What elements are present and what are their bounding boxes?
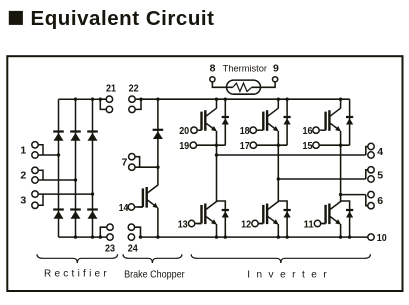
svg-text:22: 22: [129, 83, 139, 95]
svg-text:21: 21: [106, 83, 116, 95]
terminal 19 aux emitter wire: [197, 144, 226, 146]
terminal 2 circles: [32, 167, 38, 173]
junction brake emitter on N rail: [156, 235, 159, 238]
junction terminal 7: [156, 166, 159, 169]
svg-text:18: 18: [240, 125, 250, 137]
freewheel diode FD2 wire: [286, 99, 288, 145]
svg-text:Equivalent Circuit: Equivalent Circuit: [31, 7, 215, 30]
junction aux emitter leg3: [339, 144, 342, 147]
thermistor body: [227, 80, 261, 94]
svg-text:9: 9: [273, 63, 279, 75]
rectifier leg 2 wire: [75, 99, 77, 237]
freewheel diode FD5: [284, 210, 291, 218]
phase V node junction: [277, 177, 280, 180]
terminal 16 circle: [313, 127, 319, 133]
svg-text:20: 20: [179, 125, 189, 137]
terminal 11 circle: [314, 220, 320, 226]
terminal 17 aux emitter wire: [257, 144, 288, 146]
rectifier leg 3 wire: [92, 99, 94, 237]
terminal 13 circle: [188, 220, 194, 226]
terminal 14 circle: [128, 204, 134, 210]
brace Brake Chopper: [123, 254, 182, 263]
terminal 19 circle: [190, 142, 196, 148]
freewheel diode FD3 wire: [349, 99, 351, 145]
terminal 12 gate wire: [258, 223, 263, 225]
junction rectifier bottom rail leg3: [91, 235, 94, 238]
junction FD1 on P rail: [224, 98, 227, 101]
svg-text:Rectifier: Rectifier: [44, 268, 109, 279]
terminal 12 circle: [252, 220, 258, 226]
junction rectifier top rail leg3: [91, 98, 94, 101]
junction brake top on P rail: [156, 98, 159, 101]
IGBT Q5 (lower V): [259, 202, 279, 225]
terminal 3 circles: [32, 191, 38, 197]
diode D5 (rectifier lower leg2): [70, 210, 81, 219]
junction tap3 leg3: [91, 192, 94, 195]
FD6 top stub wire: [341, 201, 350, 237]
thermistor lead left: [212, 82, 233, 87]
terminal 9 circle: [273, 77, 278, 82]
terminal 4 circles: [368, 143, 374, 149]
svg-text:11: 11: [304, 218, 314, 230]
brace Rectifier: [37, 254, 118, 263]
junction Q1 collector on P rail: [215, 98, 218, 101]
thermistor zigzag: [233, 83, 252, 91]
FD4 top stub wire: [217, 201, 226, 237]
terminal 6 circles: [368, 191, 374, 197]
terminal 21 circles: [106, 96, 112, 102]
Q4 collector wire: [216, 155, 218, 202]
IGBT Q1 (upper U): [197, 108, 217, 131]
phase W node junction: [339, 193, 342, 196]
diode D2 (rectifier upper leg2): [70, 132, 81, 141]
diode D3 (rectifier upper leg3): [87, 132, 98, 141]
thermistor lead right: [252, 82, 275, 87]
svg-text:17: 17: [240, 140, 250, 152]
Q3 collector wire: [340, 99, 342, 108]
svg-text:5: 5: [377, 169, 383, 181]
junction 24 on rail: [139, 235, 142, 238]
IGBT Q6 (lower W): [321, 202, 341, 225]
Q1 emitter wire: [216, 131, 218, 155]
svg-text:2: 2: [20, 170, 26, 182]
svg-text:19: 19: [179, 140, 189, 152]
junction 22 on rail: [139, 98, 142, 101]
junction Q6 emitter on N rail: [339, 235, 342, 238]
svg-text:1: 1: [20, 145, 26, 157]
Q2 emitter wire: [277, 131, 279, 179]
junction rectifier bottom rail leg2: [74, 235, 77, 238]
svg-text:3: 3: [20, 194, 26, 206]
terminal 21 bracket wire: [100, 99, 106, 109]
terminal 17 circle: [250, 142, 256, 148]
freewheel diode FD1: [222, 117, 229, 125]
terminal 10 circle: [368, 234, 374, 240]
junction Q3 collector on P rail: [339, 98, 342, 101]
terminal 22 bracket wire: [135, 99, 141, 109]
svg-text:15: 15: [303, 140, 313, 152]
terminal 15 aux emitter wire: [319, 144, 349, 146]
input tap wire terminal 2: [38, 170, 75, 180]
phase V output wire: [278, 170, 368, 179]
terminal 15 circle: [313, 142, 319, 148]
svg-text:6: 6: [377, 195, 383, 207]
terminal 7 wire: [135, 157, 158, 168]
freewheel diode FD4: [222, 210, 229, 218]
svg-text:10: 10: [377, 232, 387, 244]
Q5 emitter wire: [277, 224, 279, 237]
terminal 23 bracket wire: [100, 227, 107, 237]
terminal 23 circles: [107, 224, 113, 230]
brake emitter wire: [157, 208, 159, 237]
Q5 collector wire: [277, 179, 279, 202]
junction aux emitter leg2: [277, 144, 280, 147]
svg-text:Inverter: Inverter: [247, 269, 331, 280]
Q6 collector wire: [340, 195, 342, 203]
IGBT Q3 (upper W): [321, 108, 341, 131]
rectifier top rail: [59, 98, 101, 100]
svg-text:16: 16: [303, 125, 313, 137]
rectifier leg 1 wire: [58, 99, 60, 237]
input tap wire terminal 3: [38, 194, 92, 205]
Q3 emitter wire: [340, 131, 342, 195]
Q2 collector wire: [277, 99, 279, 108]
junction FD2 on P rail: [285, 98, 288, 101]
brake diode D7: [153, 130, 164, 139]
junction tap2 leg2: [74, 178, 77, 181]
junction rectifier top rail leg2: [74, 98, 77, 101]
junction FD4 on N rail: [224, 235, 227, 238]
svg-text:8: 8: [210, 63, 216, 75]
junction FD5 on N rail: [285, 235, 288, 238]
terminal 8 circle: [210, 77, 215, 82]
phase W output wire: [341, 195, 368, 206]
diode D1 (rectifier upper leg1): [53, 132, 64, 141]
IGBT Q7 brake chopper: [138, 185, 158, 208]
Q6 emitter wire: [340, 224, 342, 237]
title square bullet: [9, 11, 23, 25]
IGBT Q4 (lower U): [197, 202, 217, 225]
svg-text:4: 4: [377, 146, 383, 158]
N rail (inverter minus bus): [141, 236, 368, 238]
phase U node junction: [215, 153, 218, 156]
svg-text:24: 24: [128, 243, 138, 255]
junction 23 on rail: [99, 235, 102, 238]
junction Q4 emitter on N rail: [215, 235, 218, 238]
rectifier bottom rail: [59, 236, 107, 238]
diode D4 (rectifier lower leg1): [53, 210, 64, 219]
terminal 20 circle: [191, 127, 197, 133]
Q4 emitter wire: [216, 224, 218, 237]
terminal 13 gate wire: [195, 223, 202, 225]
terminal 18 circle: [250, 127, 256, 133]
terminal 24 bracket wire: [135, 227, 141, 237]
svg-text:7: 7: [122, 156, 128, 168]
terminal 22 circles: [129, 96, 135, 102]
terminal 7 circles: [129, 154, 135, 160]
outer frame: [7, 56, 402, 291]
junction Q2 collector on P rail: [277, 98, 280, 101]
FD5 top stub wire: [278, 201, 287, 237]
junction 21 on rail: [99, 98, 102, 101]
junction tap1 leg1: [57, 153, 60, 156]
input tap wire terminal 1: [38, 145, 58, 155]
phase U output wire: [217, 147, 368, 156]
freewheel diode FD6: [346, 210, 353, 218]
terminal 11 gate wire: [321, 223, 326, 225]
svg-text:23: 23: [105, 243, 115, 255]
svg-text:Brake Chopper: Brake Chopper: [124, 268, 185, 280]
junction aux emitter leg1: [215, 144, 218, 147]
IGBT Q2 (upper V): [259, 108, 279, 131]
freewheel diode FD3: [346, 117, 353, 125]
Q1 collector wire: [216, 99, 218, 108]
diode D6 (rectifier lower leg3): [87, 210, 98, 219]
brace Inverter: [191, 254, 370, 263]
svg-text:12: 12: [241, 218, 251, 230]
svg-text:13: 13: [178, 218, 188, 230]
terminal 5 circles: [368, 167, 374, 173]
P rail (inverter plus bus): [141, 98, 350, 100]
freewheel diode FD1 wire: [224, 99, 226, 145]
terminal 24 circles: [128, 224, 134, 230]
svg-text:Thermistor: Thermistor: [223, 63, 267, 73]
junction FD6 on N rail: [348, 235, 351, 238]
terminal 1 circles: [32, 142, 38, 148]
svg-text:14: 14: [119, 202, 129, 214]
terminal 14 gate wire: [135, 206, 143, 208]
brake chopper main vertical wire: [157, 99, 159, 185]
freewheel diode FD2: [284, 117, 291, 125]
junction Q5 emitter on N rail: [277, 235, 280, 238]
